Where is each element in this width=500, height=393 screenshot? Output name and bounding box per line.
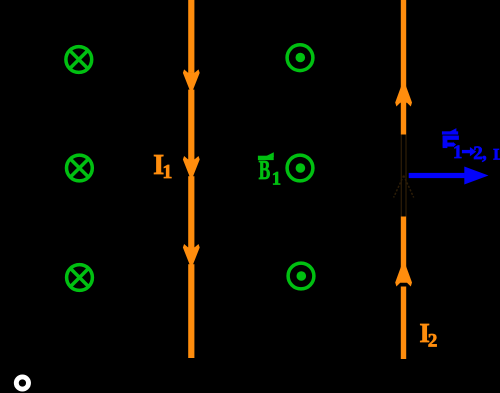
svg-text:1: 1 bbox=[162, 161, 172, 183]
svg-text:L: L bbox=[493, 146, 500, 163]
svg-text:,: , bbox=[482, 143, 487, 164]
svg-text:1: 1 bbox=[272, 168, 281, 189]
svg-text:1: 1 bbox=[453, 142, 462, 163]
svg-text:2: 2 bbox=[428, 330, 438, 351]
